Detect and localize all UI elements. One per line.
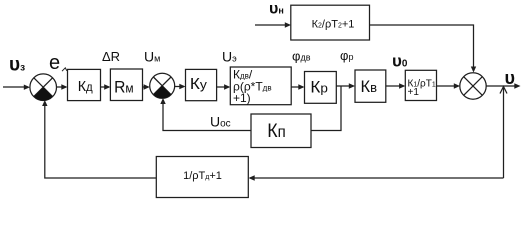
- block Кп: [251, 114, 311, 148]
- wire Kr to Kv: [336, 83, 355, 88]
- svg-text:Кд: Кд: [78, 78, 93, 95]
- block Кв: [355, 70, 386, 102]
- svg-text:К2/ρТ2+1: К2/ρТ2+1: [312, 19, 355, 31]
- svg-text:Кп: Кп: [267, 121, 286, 142]
- svg-text:Ку: Ку: [190, 76, 208, 93]
- node summing junction 3: [460, 73, 486, 99]
- node summing junction 1: [30, 74, 57, 101]
- svg-text:+1: +1: [408, 87, 420, 98]
- wire Un input: [255, 22, 291, 27]
- wire Kp output to summer2 bottom: [160, 98, 251, 131]
- wire input setpoint: [3, 85, 30, 90]
- svg-text:Кр: Кр: [310, 79, 328, 97]
- wire summer2 to Ky: [175, 84, 186, 89]
- svg-text:e: e: [49, 52, 60, 74]
- wire Ky to Kdv: [217, 84, 231, 89]
- block К2/рТ2+1: [291, 5, 370, 40]
- block Ку: [186, 69, 217, 100]
- svg-text:ΔR: ΔR: [102, 49, 120, 64]
- wire K1 to summer3: [437, 83, 461, 88]
- svg-text:1/ρТд+1: 1/ρТд+1: [183, 170, 222, 182]
- wire 1/pTd block to summer1 bottom: [42, 100, 156, 178]
- wire bottom feedback to 1/pTd block: [249, 175, 504, 180]
- svg-text:Кв: Кв: [361, 78, 378, 96]
- block Кд: [68, 69, 101, 100]
- wire output: [486, 83, 521, 88]
- block Кр: [305, 72, 337, 104]
- block 1/рТд+1: [156, 157, 248, 198]
- block К1/рТ1+1: [405, 70, 436, 100]
- wire Kd to Rm: [101, 84, 111, 89]
- wire Rm to summer2: [143, 84, 150, 89]
- block Rм: [110, 69, 142, 101]
- block Кдв/р(р*Тдв+1): [230, 67, 291, 105]
- wire Kv to K1: [386, 83, 406, 88]
- svg-text:+1): +1): [233, 91, 251, 105]
- wire K2 output to summer3 top: [370, 25, 477, 73]
- svg-text:υ: υ: [505, 68, 515, 88]
- wire summer2 tap: Kr wire down to Kp: [311, 86, 341, 131]
- node summing junction 2: [150, 73, 175, 98]
- svg-text:Rм: Rм: [114, 78, 134, 97]
- wire feedback tap down from output: [500, 87, 507, 179]
- wire Kdv to Kr: [291, 84, 304, 89]
- wire e: summer1 to Kd: [57, 84, 68, 89]
